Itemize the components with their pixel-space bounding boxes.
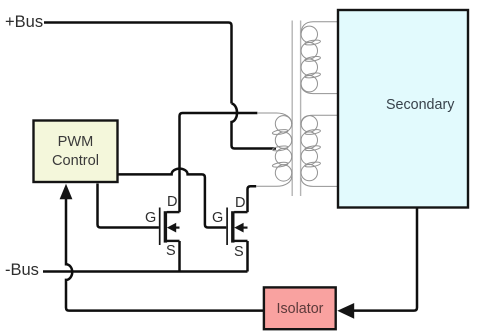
T1 primary winding: lead-out to M2 drain — [256, 177, 292, 187]
wire -Bus horizontal — [43, 270, 248, 273]
transistor Q2 (right MOSFET) — [227, 208, 247, 246]
wire M1 source to -Bus — [178, 241, 181, 272]
Isolator block — [264, 287, 336, 329]
wire PWM output to M1 gate — [98, 184, 159, 228]
T1 secondary winding top: lead-out — [301, 85, 337, 94]
wire primary bottom to M2 drain — [248, 186, 257, 212]
T1 secondary winding bottom: lead-out — [301, 178, 337, 187]
wire feedback: isolator to PWM (hop over -Bus) — [66, 198, 263, 311]
node +Bus label — [5, 13, 43, 32]
Secondary block — [338, 10, 468, 208]
T1 secondary winding bottom: turns — [301, 116, 317, 132]
T1 secondary winding top: turns — [301, 26, 317, 42]
T1 secondary winding top: lead-in — [301, 22, 337, 34]
Q1 pin label S — [166, 243, 176, 259]
arrow into isolator — [337, 303, 354, 319]
PWM Control block — [34, 121, 118, 183]
wire M2 source to -Bus — [246, 241, 249, 272]
Isolator label — [264, 301, 336, 317]
Q2 pin label G — [212, 210, 223, 226]
Q2 pin label S — [234, 244, 244, 260]
wire +Bus vertical drop to transformer center tap (with hop) — [232, 104, 277, 149]
wire secondary box to isolator — [353, 209, 418, 311]
wire +Bus horizontal — [44, 23, 232, 104]
T1 secondary winding bottom: lead-in — [301, 115, 337, 125]
Q1 pin label D — [167, 194, 177, 210]
transformer T1 core line A — [291, 21, 293, 197]
Q1 pin label G — [145, 210, 156, 226]
transistor Q1 (left MOSFET) — [160, 208, 180, 246]
arrow into PWM control (feedback) — [60, 184, 73, 199]
Q2 pin label D — [235, 195, 245, 211]
Secondary label — [386, 97, 454, 113]
T1 primary winding: turns — [275, 116, 291, 132]
T1 primary winding: lead-in from M1 drain wire — [257, 113, 292, 124]
wire M1 drain to primary top — [180, 113, 258, 212]
wire PWM output to M2 gate (hop over M1 drain wire) — [119, 169, 227, 228]
PWM Control label — [33, 133, 118, 170]
node -Bus label — [5, 261, 39, 280]
transformer T1 core line B — [300, 21, 302, 197]
